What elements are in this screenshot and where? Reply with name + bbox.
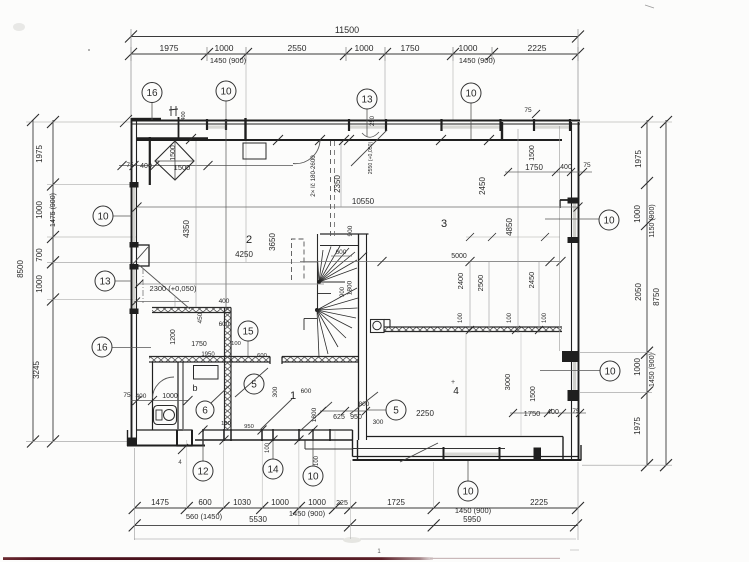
bottom segmented dimension line 1 xyxy=(135,507,578,509)
svg-text:1975: 1975 xyxy=(633,417,642,435)
bath dim line 1000 xyxy=(131,400,188,402)
svg-text:12: 12 xyxy=(197,466,209,477)
svg-text:3000: 3000 xyxy=(503,374,512,391)
terrace door arc top xyxy=(293,141,320,164)
door swing diagonal hall xyxy=(300,402,332,431)
bathroom door arc xyxy=(153,377,175,399)
svg-text:1750: 1750 xyxy=(525,163,543,172)
circle 16 top xyxy=(142,83,162,103)
leader circle10 top-left xyxy=(225,101,227,311)
guide line room3 x521 xyxy=(517,129,519,333)
svg-text:625: 625 xyxy=(333,414,345,421)
svg-text:1975: 1975 xyxy=(35,145,44,163)
bottom wall left jambs xyxy=(223,429,225,441)
svg-text:2225: 2225 xyxy=(530,498,548,507)
dashed beam line b xyxy=(334,141,336,236)
guide line room3 x559 xyxy=(559,126,561,351)
circle 10 left xyxy=(93,206,113,226)
diagonal from left pier xyxy=(139,265,190,309)
svg-text:1000: 1000 xyxy=(162,393,178,400)
stair lower-left step line xyxy=(304,318,317,320)
svg-text:1725: 1725 xyxy=(387,498,405,507)
door diagonal near circle6 xyxy=(211,385,230,403)
interior dim line 1750/400 bottom right xyxy=(510,412,586,414)
leader circle16 top xyxy=(151,103,153,121)
svg-text:11500: 11500 xyxy=(335,25,359,35)
svg-text:1000: 1000 xyxy=(271,498,289,507)
svg-text:1950: 1950 xyxy=(201,352,215,358)
svg-text:100: 100 xyxy=(542,312,548,323)
svg-text:1450 (900): 1450 (900) xyxy=(289,509,326,518)
top wall window 2 glazing xyxy=(349,126,386,129)
svg-text:225: 225 xyxy=(336,500,348,507)
svg-text:8750: 8750 xyxy=(652,288,661,306)
top segmented dimension line xyxy=(131,53,578,55)
circle 5 east xyxy=(386,400,406,420)
svg-text:800: 800 xyxy=(359,401,370,408)
left wall window lower glazing xyxy=(133,268,136,311)
extension line right end of top dims xyxy=(577,29,579,121)
svg-text:10: 10 xyxy=(604,366,616,377)
circle 10 right lower xyxy=(600,361,620,381)
top wall window 1 glazing xyxy=(207,126,226,129)
svg-text:600: 600 xyxy=(219,321,230,328)
left segmented dimension line xyxy=(52,120,54,442)
bottom dimension line 2 xyxy=(135,524,578,526)
stairwell right wall xyxy=(358,234,360,440)
stair spine xyxy=(319,281,345,283)
wc niche lines xyxy=(384,319,390,321)
svg-text:1150 (900): 1150 (900) xyxy=(649,204,656,237)
svg-text:100: 100 xyxy=(314,455,320,466)
left wall window upper glazing xyxy=(133,187,136,243)
svg-text:2550 (+0,050): 2550 (+0,050) xyxy=(368,142,374,175)
svg-text:1000: 1000 xyxy=(633,205,642,223)
leader circle10 bottom1 xyxy=(312,432,314,467)
circle 16 left xyxy=(92,337,112,357)
leader circle13 top xyxy=(366,109,368,137)
hatched wall H3 (living south) xyxy=(382,327,562,332)
left exterior wall xyxy=(131,118,133,440)
extension line at x=453 xyxy=(452,58,454,120)
circle 10 bottom terrace xyxy=(458,481,478,501)
svg-text:1800: 1800 xyxy=(347,280,354,295)
svg-text:100: 100 xyxy=(231,341,241,347)
svg-text:75: 75 xyxy=(583,162,591,169)
svg-text:1450 (900): 1450 (900) xyxy=(459,56,496,65)
svg-text:1000: 1000 xyxy=(35,201,44,219)
svg-text:10: 10 xyxy=(603,215,615,226)
bottom right corner xyxy=(562,437,564,461)
svg-text:300: 300 xyxy=(272,386,279,397)
room3 faint dim line y237 xyxy=(466,236,560,238)
left wall inner face upper xyxy=(149,137,151,185)
svg-text:400: 400 xyxy=(219,298,230,305)
bottom right wall block xyxy=(534,448,542,461)
svg-text:75: 75 xyxy=(524,107,532,114)
svg-text:1: 1 xyxy=(290,390,296,402)
corner tick top-left xyxy=(120,115,132,127)
guide x175 bath xyxy=(174,296,176,308)
bottom wall step line right xyxy=(305,448,353,450)
svg-text:400: 400 xyxy=(136,393,147,400)
svg-text:5: 5 xyxy=(393,405,399,416)
svg-text:2500: 2500 xyxy=(476,275,485,292)
svg-text:1200: 1200 xyxy=(170,329,177,345)
svg-text:75: 75 xyxy=(572,408,580,415)
circle 10 bottom plan xyxy=(303,466,323,486)
svg-text:75: 75 xyxy=(123,392,131,399)
stair lower fan xyxy=(317,288,357,310)
svg-text:6: 6 xyxy=(202,405,208,416)
svg-text:1450 (900): 1450 (900) xyxy=(455,506,492,515)
svg-text:950: 950 xyxy=(350,414,362,421)
circle 12 bottom xyxy=(193,461,213,481)
svg-text:2× Ič 180-2600: 2× Ič 180-2600 xyxy=(310,155,317,197)
svg-text:2225: 2225 xyxy=(528,43,547,53)
circle 14 bottom xyxy=(263,459,283,479)
svg-text:2300 (+0,050): 2300 (+0,050) xyxy=(150,284,197,293)
svg-text:1450 (900): 1450 (900) xyxy=(210,56,247,65)
door swing diagonal terrace east xyxy=(400,443,438,462)
svg-text:2: 2 xyxy=(246,234,252,246)
interior line y301 xyxy=(134,301,189,303)
svg-text:1000: 1000 xyxy=(355,43,374,53)
chimney niche rect xyxy=(243,143,266,159)
svg-text:3: 3 xyxy=(441,218,447,230)
right segmented dimension line xyxy=(646,120,648,466)
leader circle10 left xyxy=(113,215,132,217)
interior dim line 5000 xyxy=(300,261,560,263)
svg-text:4: 4 xyxy=(453,386,459,397)
right extension lines xyxy=(580,121,672,123)
svg-text:13: 13 xyxy=(99,276,111,287)
svg-text:2550: 2550 xyxy=(288,43,307,53)
svg-text:1000: 1000 xyxy=(459,43,478,53)
hatched wall H2 west part xyxy=(149,357,270,363)
svg-text:600: 600 xyxy=(257,353,267,359)
tiny dot upper-left xyxy=(88,49,90,51)
svg-text:13: 13 xyxy=(361,94,373,105)
svg-text:8500: 8500 xyxy=(16,260,25,278)
svg-text:10: 10 xyxy=(462,486,474,497)
dashed beam line xyxy=(330,141,332,236)
svg-text:1500: 1500 xyxy=(530,386,537,402)
circle 13 top xyxy=(357,89,377,109)
wc square fixture at stair xyxy=(371,320,385,333)
svg-text:600: 600 xyxy=(198,498,212,507)
extension line at x=385 xyxy=(384,58,386,120)
circle 10 top right xyxy=(461,83,481,103)
svg-text:1750: 1750 xyxy=(401,43,420,53)
room4 guide verticals xyxy=(465,333,467,436)
svg-text:250: 250 xyxy=(370,115,376,126)
svg-text:600: 600 xyxy=(336,249,347,256)
hatched wall V1 (bath east) xyxy=(225,308,232,431)
right wall window 1 xyxy=(573,203,576,239)
washroom west wall xyxy=(152,362,154,430)
tick below entry bump xyxy=(178,444,188,454)
svg-text:1975: 1975 xyxy=(634,150,643,168)
svg-text:1500: 1500 xyxy=(529,145,536,161)
svg-text:10: 10 xyxy=(307,471,319,482)
svg-text:1000: 1000 xyxy=(35,275,44,293)
svg-text:16: 16 xyxy=(146,88,158,99)
stair mid landing line xyxy=(317,293,331,295)
door diagonal near circle5 xyxy=(235,368,268,397)
svg-text:400: 400 xyxy=(547,409,559,416)
door swing diagonal hall east xyxy=(350,392,378,414)
porch corner dark mass xyxy=(128,438,138,446)
window B diagonal xyxy=(351,130,387,166)
terrace door dim line xyxy=(119,165,293,167)
svg-text:2450: 2450 xyxy=(527,272,536,289)
bottom wall left outer line xyxy=(127,445,205,447)
room3 guide verticals xyxy=(469,262,471,334)
svg-text:5530: 5530 xyxy=(249,515,267,524)
svg-text:1750: 1750 xyxy=(524,409,541,418)
faint mark top-right xyxy=(645,5,654,8)
door swing diagonal room b xyxy=(260,399,292,430)
bottom wall right inner line xyxy=(367,436,563,438)
top wall left dark chunk xyxy=(131,118,161,122)
svg-text:10: 10 xyxy=(220,86,232,97)
svg-text:75: 75 xyxy=(126,162,134,169)
guide line room3 left xyxy=(340,141,342,207)
faint smudge top-left xyxy=(13,23,25,31)
leader circle14 bottom xyxy=(272,441,274,459)
svg-text:900: 900 xyxy=(340,286,346,297)
left wall pier xyxy=(132,245,150,266)
svg-text:560 (1450): 560 (1450) xyxy=(186,512,223,521)
washbasin rect room b xyxy=(194,366,219,380)
svg-text:600: 600 xyxy=(301,388,312,395)
svg-text:3650: 3650 xyxy=(268,233,277,251)
svg-text:4250: 4250 xyxy=(235,250,253,259)
washroom east wall xyxy=(177,362,179,429)
svg-text:1000: 1000 xyxy=(633,358,642,376)
leader circle10 topright xyxy=(470,103,472,139)
leader circle5 east xyxy=(366,409,386,411)
interior dim line 1750/400 top right xyxy=(505,171,592,173)
top overall dimension line 11500 xyxy=(131,36,578,38)
svg-text:2050: 2050 xyxy=(634,283,643,301)
leader circle16 left xyxy=(112,347,151,349)
chimney diamond xyxy=(155,141,194,180)
svg-text:300: 300 xyxy=(373,419,384,426)
bathroom fixture xyxy=(154,406,177,425)
leader circle10 bottom2 xyxy=(467,461,469,481)
svg-text:400: 400 xyxy=(181,111,187,120)
svg-text:450: 450 xyxy=(197,312,204,323)
svg-text:10550: 10550 xyxy=(352,197,375,206)
svg-text:+: + xyxy=(451,379,455,386)
svg-text:100: 100 xyxy=(507,312,513,323)
circle 13 left xyxy=(95,271,115,291)
svg-text:400: 400 xyxy=(560,164,572,171)
circle 10 top xyxy=(216,81,236,101)
svg-text:1000: 1000 xyxy=(215,43,234,53)
leader circle15 xyxy=(247,341,249,356)
svg-text:900: 900 xyxy=(347,225,354,236)
stairwell top wall xyxy=(320,233,369,235)
svg-text:1500: 1500 xyxy=(170,145,177,161)
right overall dimension line 8750 xyxy=(665,120,667,466)
leader circle13 left xyxy=(115,280,132,282)
top wall inner face xyxy=(137,139,562,141)
bottom wall jog xyxy=(352,430,354,457)
svg-text:1450 (900): 1450 (900) xyxy=(649,353,656,387)
svg-text:150: 150 xyxy=(221,421,231,427)
extension line left end of top dims xyxy=(130,29,132,117)
svg-text:10: 10 xyxy=(97,211,109,222)
extension line at x=246 xyxy=(245,58,247,262)
svg-text:4350: 4350 xyxy=(182,220,191,238)
bottom wall right section xyxy=(353,456,579,458)
bottom wall right mid line xyxy=(353,448,506,450)
circle 6 interior xyxy=(196,401,214,419)
svg-text:1500: 1500 xyxy=(174,163,191,172)
svg-text:950: 950 xyxy=(244,424,254,430)
bottom faint dimension line 3 xyxy=(134,538,576,540)
svg-text:5000: 5000 xyxy=(451,253,467,260)
top wall window 3 glazing xyxy=(443,126,500,129)
interior line y284 xyxy=(136,283,324,285)
leader circle10 right upper xyxy=(545,218,599,220)
svg-text:2400: 2400 xyxy=(456,273,465,290)
svg-text:1800: 1800 xyxy=(311,407,318,422)
interior dim line entrance 625/950 xyxy=(320,410,367,412)
svg-text:2250: 2250 xyxy=(416,409,434,418)
svg-text:1030: 1030 xyxy=(233,498,251,507)
interior wall top-left tick xyxy=(186,134,196,144)
svg-text:1475: 1475 xyxy=(151,498,169,507)
interior dim 600 at stair xyxy=(331,255,352,257)
hatched wall H1 (bath north) xyxy=(152,308,231,313)
left overall dimension line 8500 xyxy=(32,120,34,442)
hatched wall H2 east part xyxy=(282,357,359,363)
svg-text:400: 400 xyxy=(140,163,152,170)
svg-text:100: 100 xyxy=(265,442,271,453)
svg-text:5950: 5950 xyxy=(463,515,481,524)
circle 10 right upper xyxy=(599,210,619,230)
right wall window 2 xyxy=(573,362,576,390)
svg-text:16: 16 xyxy=(96,342,108,353)
svg-text:15: 15 xyxy=(242,326,254,337)
bottom wall tick marks xyxy=(199,426,208,435)
svg-text:10: 10 xyxy=(465,88,477,99)
svg-text:1000: 1000 xyxy=(308,498,326,507)
svg-text:1750: 1750 xyxy=(191,341,207,348)
left extension lines xyxy=(26,121,131,123)
svg-text:14: 14 xyxy=(267,464,279,475)
entry step bump xyxy=(177,430,192,446)
dash-dot line left wall xyxy=(142,268,144,303)
svg-text:1975: 1975 xyxy=(160,43,179,53)
svg-text:b: b xyxy=(192,383,197,393)
leader circle10 right lower xyxy=(540,370,600,372)
interior dim line 10550 xyxy=(137,206,578,208)
bottom wall left middle line xyxy=(195,439,353,441)
top exterior wall xyxy=(131,120,580,122)
circle 5 interior xyxy=(244,374,264,394)
stair dashed landing rect xyxy=(292,239,305,280)
right wall step line xyxy=(560,199,578,201)
svg-text:100: 100 xyxy=(458,312,464,323)
svg-text:4850: 4850 xyxy=(505,218,514,236)
svg-text:2350: 2350 xyxy=(333,175,342,193)
red footer band xyxy=(3,557,433,560)
H2 door jambs xyxy=(269,357,271,365)
svg-text:700: 700 xyxy=(35,248,44,262)
right exterior wall xyxy=(578,122,580,460)
bottom wall left inner line xyxy=(137,429,183,431)
svg-text:5: 5 xyxy=(251,379,257,390)
svg-text:1475 (900): 1475 (900) xyxy=(50,193,57,227)
stair upper fan xyxy=(318,258,320,282)
top wall jambs xyxy=(178,117,180,140)
H mark above wall xyxy=(170,106,172,116)
bottom extension lines xyxy=(134,448,136,540)
guide line x196 xyxy=(195,141,197,307)
svg-text:3245: 3245 xyxy=(32,361,41,379)
bottom right window glazing xyxy=(445,453,498,456)
stairwell left wall xyxy=(317,234,319,311)
circle 15 interior xyxy=(238,321,258,341)
top wall window 4 glazing xyxy=(534,126,570,129)
leader circle12 bottom xyxy=(202,432,204,461)
svg-text:2450: 2450 xyxy=(478,177,487,195)
